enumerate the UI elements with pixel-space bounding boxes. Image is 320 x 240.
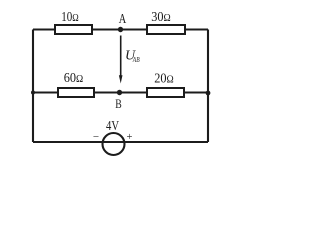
svg-text:4V: 4V [106, 119, 119, 134]
svg-text:60Ω: 60Ω [64, 71, 84, 86]
svg-text:10Ω: 10Ω [61, 10, 79, 25]
svg-text:−: − [93, 131, 99, 143]
svg-text:20Ω: 20Ω [154, 72, 174, 87]
svg-text:+: + [127, 132, 133, 143]
svg-text:AB: AB [132, 55, 140, 64]
svg-text:30Ω: 30Ω [151, 10, 171, 25]
svg-text:A: A [119, 12, 127, 27]
svg-text:B: B [115, 96, 122, 111]
